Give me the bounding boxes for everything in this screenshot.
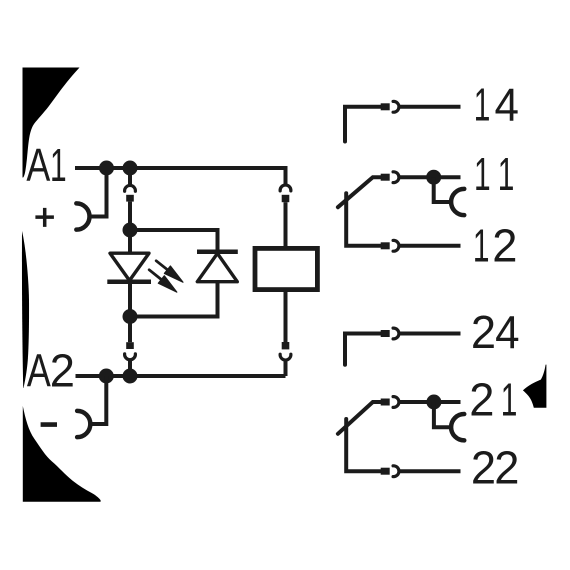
LED emission arrow upper	[156, 261, 183, 282]
wire A1 drop to + clamp	[91, 168, 107, 217]
wire LED branch upper	[128, 202, 132, 230]
LED D1 triangle	[110, 253, 149, 280]
plug contact socket arc 11	[393, 172, 399, 183]
wire A2 drop to - clamp	[92, 376, 107, 424]
scan artifact right-edge	[523, 365, 547, 408]
plug contact socket arc 24	[393, 328, 399, 339]
wire stub below A1 junction	[128, 168, 132, 186]
junction dot LED top	[123, 223, 138, 238]
svg-text:1: 1	[474, 150, 491, 201]
svg-text:2: 2	[492, 220, 517, 271]
relay coil K1	[255, 248, 317, 289]
plug contact pin 21	[381, 399, 390, 406]
clamp terminal 11 (cage clamp arc)	[451, 189, 464, 215]
plug contact pin (LED branch top)	[126, 195, 134, 202]
contact 14 wire	[345, 107, 381, 142]
svg-text:1: 1	[498, 150, 515, 201]
freewheeling diode D2 triangle	[197, 253, 237, 281]
plug contact pin 24	[381, 330, 390, 337]
plug contact pin 14	[381, 103, 390, 110]
plug contact socket arc 12	[393, 240, 399, 251]
wire 21 drop to clamp	[434, 402, 450, 427]
svg-text:A: A	[27, 345, 51, 396]
svg-text:1: 1	[474, 80, 491, 131]
freewheeling diode D2 cathode bar	[197, 250, 238, 255]
plug contact pin 22	[381, 468, 390, 475]
junction dot A1-right	[123, 161, 138, 176]
plug contact pin (coil branch top)	[282, 195, 290, 202]
switch arm contact 11	[338, 177, 381, 207]
junction dot A1-left	[99, 161, 114, 176]
wire 14 to terminal	[398, 105, 460, 109]
svg-text:A: A	[26, 140, 50, 191]
junction dot A2-left	[99, 369, 114, 384]
plug contact pin 11	[381, 174, 390, 181]
wire 11 to terminal	[398, 175, 460, 179]
wire A2 bus to coil branch	[76, 360, 286, 376]
plug contact socket arc (coil branch top)	[280, 185, 291, 191]
wire stub to A2 bus	[128, 360, 132, 376]
LED D1 cathode bar	[107, 280, 151, 285]
wire A1 bus to coil branch	[75, 168, 286, 186]
LED emission arrow lower	[149, 270, 177, 292]
plug contact pin 12	[381, 242, 390, 249]
polarity mark +	[35, 208, 54, 227]
junction dot 21	[426, 395, 441, 410]
svg-text:2: 2	[50, 345, 75, 396]
scan artifact left-middle	[22, 231, 29, 388]
wire loop top	[130, 230, 218, 252]
clamp terminal 21 (cage clamp arc)	[451, 414, 464, 440]
plug contact socket arc 14	[393, 101, 399, 112]
svg-text:2: 2	[471, 307, 496, 358]
svg-text:4: 4	[495, 306, 519, 358]
svg-text:2: 2	[471, 442, 496, 493]
wire 11 drop to clamp	[434, 177, 450, 202]
wire LED branch lower	[128, 317, 132, 343]
svg-text:2: 2	[469, 374, 494, 425]
wire 24 to terminal	[398, 332, 460, 336]
svg-text:1: 1	[501, 375, 518, 426]
scan artifact top-left	[23, 68, 80, 178]
clamp terminal + (cage clamp arc)	[76, 203, 89, 229]
wire 21 to terminal	[398, 400, 460, 404]
plug contact pin (coil branch bottom)	[282, 342, 290, 349]
wire 12 riser	[346, 193, 381, 246]
plug contact socket arc (LED branch bottom)	[125, 354, 136, 360]
junction dot 11	[426, 170, 441, 185]
clamp terminal - (cage clamp arc)	[77, 411, 90, 437]
wire 22 riser	[346, 419, 381, 471]
plug contact socket arc 21	[393, 397, 399, 408]
wire 12 to terminal	[398, 244, 460, 248]
wire 22 to terminal	[398, 469, 460, 473]
svg-text:1: 1	[50, 140, 67, 191]
wire coil upper lead	[284, 202, 288, 246]
plug contact socket arc (coil branch bottom)	[280, 354, 291, 360]
wire loop bottom	[130, 282, 218, 317]
wire coil lower lead	[284, 292, 288, 342]
junction dot LED bottom	[123, 309, 138, 324]
scan artifact bottom-left	[23, 406, 101, 502]
wire LED anode	[128, 230, 132, 253]
svg-text:1: 1	[473, 221, 490, 272]
svg-text:2: 2	[494, 442, 519, 493]
contact 24 wire	[345, 334, 381, 365]
svg-text:4: 4	[495, 79, 519, 131]
wire LED cathode	[128, 282, 132, 317]
plug contact socket arc (LED branch top)	[125, 185, 136, 191]
plug contact socket arc 22	[393, 466, 399, 477]
plug contact pin (LED branch bottom)	[126, 342, 134, 349]
polarity mark -	[41, 422, 57, 427]
junction dot A2-right	[123, 369, 138, 384]
switch arm contact 21	[338, 402, 381, 434]
